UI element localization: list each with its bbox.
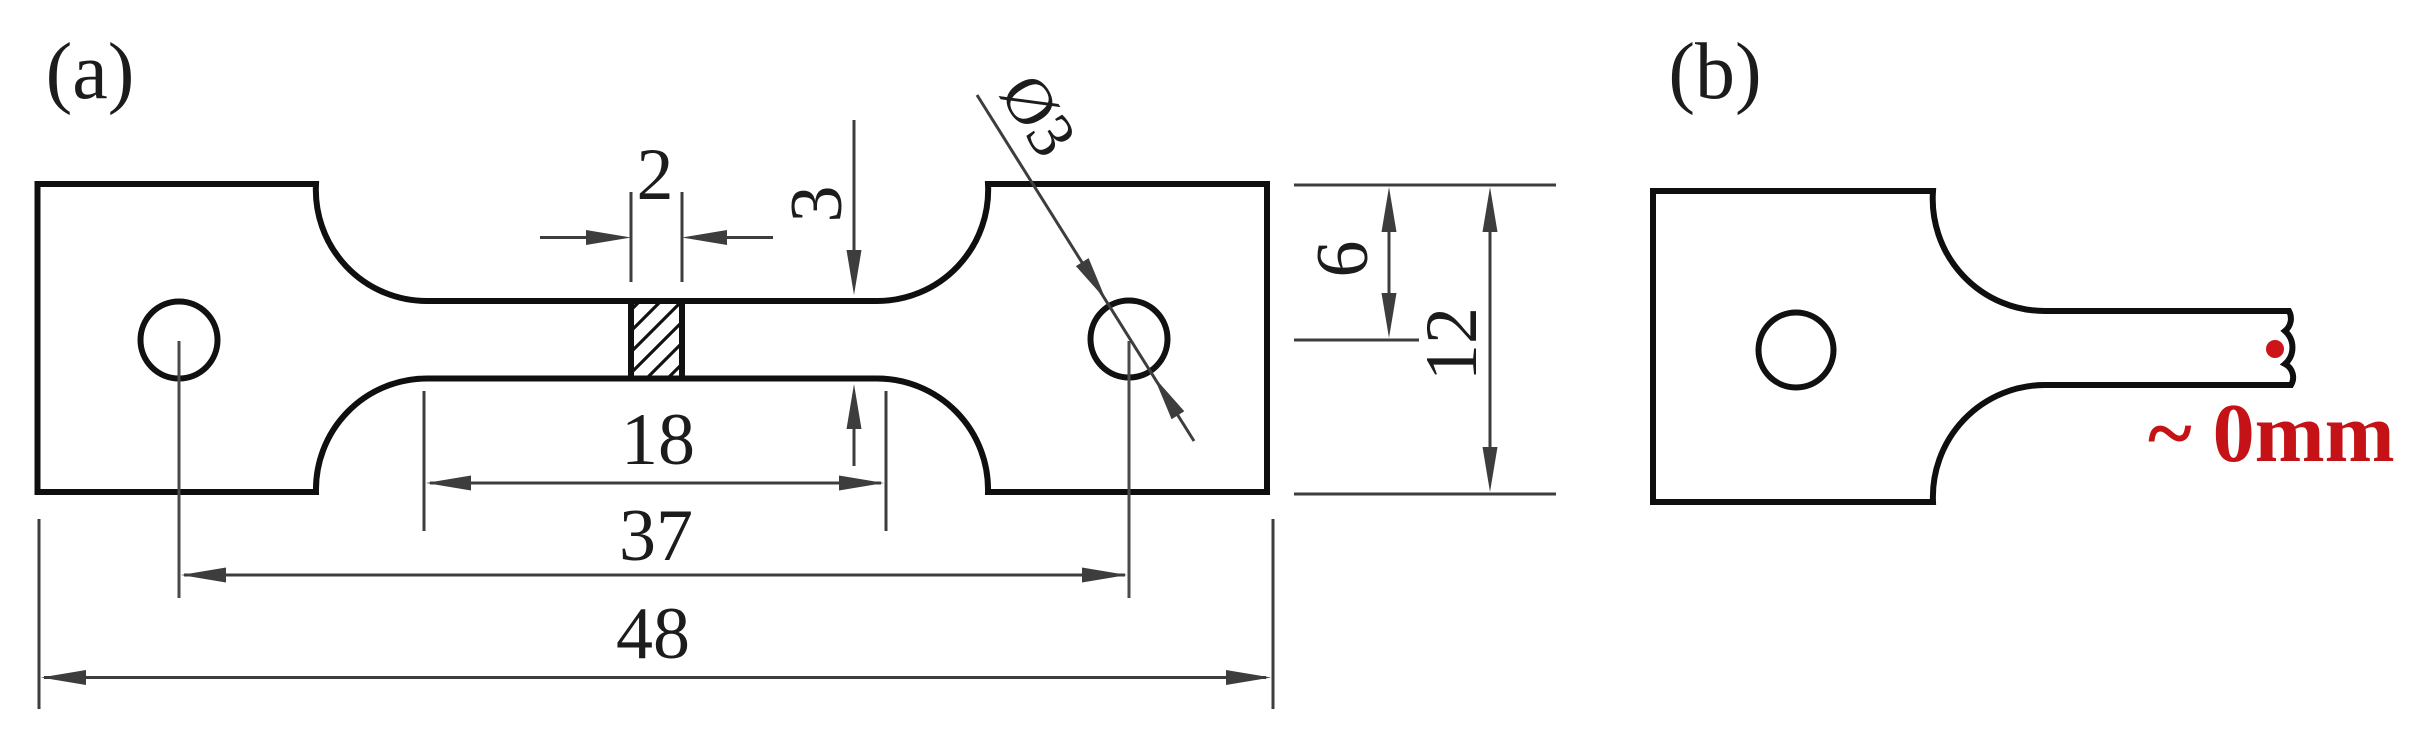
hole centerline right [1128, 341, 1131, 598]
svg-text:~ 0mm: ~ 0mm [2148, 387, 2395, 480]
svg-text:18: 18 [621, 399, 695, 481]
specimen (a) outline [38, 184, 1268, 492]
label (b) [1668, 28, 1761, 116]
svg-text:3: 3 [776, 186, 858, 223]
svg-text:2: 2 [637, 134, 674, 216]
hole right (a) [1091, 301, 1168, 378]
specimen (b) outline with broken end [1653, 191, 2293, 502]
red annotation ~0mm [2148, 387, 2395, 480]
dimension 3 [776, 120, 862, 466]
label (a) [46, 28, 135, 116]
hole (b) [1759, 313, 1834, 388]
fracture red dot [2266, 340, 2284, 358]
svg-text:48: 48 [616, 593, 690, 675]
dimension 12 [1411, 187, 1498, 492]
hole left (a) [141, 302, 218, 379]
dimension 6 [1302, 187, 1397, 338]
hatch section bars [541, 250, 796, 400]
svg-text:37: 37 [619, 495, 693, 577]
svg-text:(b): (b) [1668, 28, 1761, 116]
right side extension lines [1294, 185, 1556, 494]
dimension 37 [181, 495, 1127, 583]
dimension 2 [540, 134, 773, 282]
dimension diameter 3 leader [977, 62, 1194, 441]
svg-text:6: 6 [1302, 241, 1384, 278]
svg-text:12: 12 [1411, 307, 1493, 381]
svg-text:(a): (a) [46, 28, 135, 116]
dimension 48 [39, 519, 1273, 709]
hole centerline left [178, 341, 181, 598]
dimension 18 [424, 391, 886, 531]
